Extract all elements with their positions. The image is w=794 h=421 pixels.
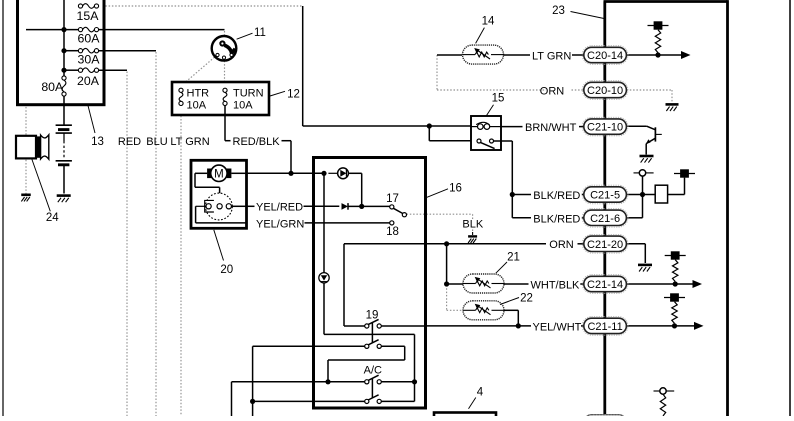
svg-text:YEL/GRN: YEL/GRN [256,218,304,230]
svg-text:30A: 30A [78,53,101,67]
svg-text:C21-11: C21-11 [587,321,622,333]
svg-text:10A: 10A [187,100,207,112]
svg-text:BLK: BLK [462,218,483,230]
svg-text:20: 20 [220,264,233,276]
svg-text:M: M [214,169,224,181]
svg-text:A/C: A/C [364,364,382,376]
svg-text:C21-6: C21-6 [590,213,620,225]
svg-text:23: 23 [552,5,565,17]
svg-text:C20-10: C20-10 [587,85,623,97]
svg-text:11: 11 [254,27,266,39]
svg-text:ORN: ORN [540,85,565,97]
svg-text:16: 16 [449,182,462,194]
svg-text:BLK/RED: BLK/RED [533,213,580,225]
svg-text:YEL/WHT: YEL/WHT [533,321,582,333]
svg-text:RED/BLK: RED/BLK [233,136,281,148]
svg-text:24: 24 [46,212,59,224]
svg-text:4: 4 [477,386,484,398]
svg-text:BLU: BLU [146,136,167,148]
svg-text:HTR: HTR [187,88,210,100]
svg-text:15A: 15A [77,9,100,23]
svg-text:WHT/BLK: WHT/BLK [531,279,581,291]
svg-text:21: 21 [507,252,520,264]
svg-text:15: 15 [492,92,505,104]
svg-text:C21-5: C21-5 [590,190,620,202]
svg-text:LT GRN: LT GRN [170,136,209,148]
svg-text:60A: 60A [78,32,101,46]
svg-text:10A: 10A [233,100,253,112]
svg-text:80A: 80A [41,80,64,94]
svg-text:14: 14 [482,16,495,28]
svg-text:ORN: ORN [549,239,574,251]
svg-text:C21-20: C21-20 [587,239,623,251]
svg-text:22: 22 [520,293,533,305]
svg-text:TURN: TURN [233,88,264,100]
svg-text:17: 17 [386,193,399,205]
svg-text:BRN/WHT: BRN/WHT [525,122,577,134]
svg-text:19: 19 [366,309,379,321]
svg-text:C20-14: C20-14 [587,50,623,62]
svg-text:BLK/RED: BLK/RED [533,190,580,202]
svg-text:18: 18 [386,226,399,238]
svg-text:12: 12 [287,89,300,101]
svg-text:LT GRN: LT GRN [532,50,571,62]
svg-text:RED: RED [118,136,141,148]
svg-text:C21-10: C21-10 [587,122,623,134]
svg-text:C21-14: C21-14 [587,279,623,291]
svg-text:20A: 20A [77,74,100,88]
svg-text:13: 13 [91,136,104,148]
svg-text:YEL/RED: YEL/RED [256,202,303,214]
